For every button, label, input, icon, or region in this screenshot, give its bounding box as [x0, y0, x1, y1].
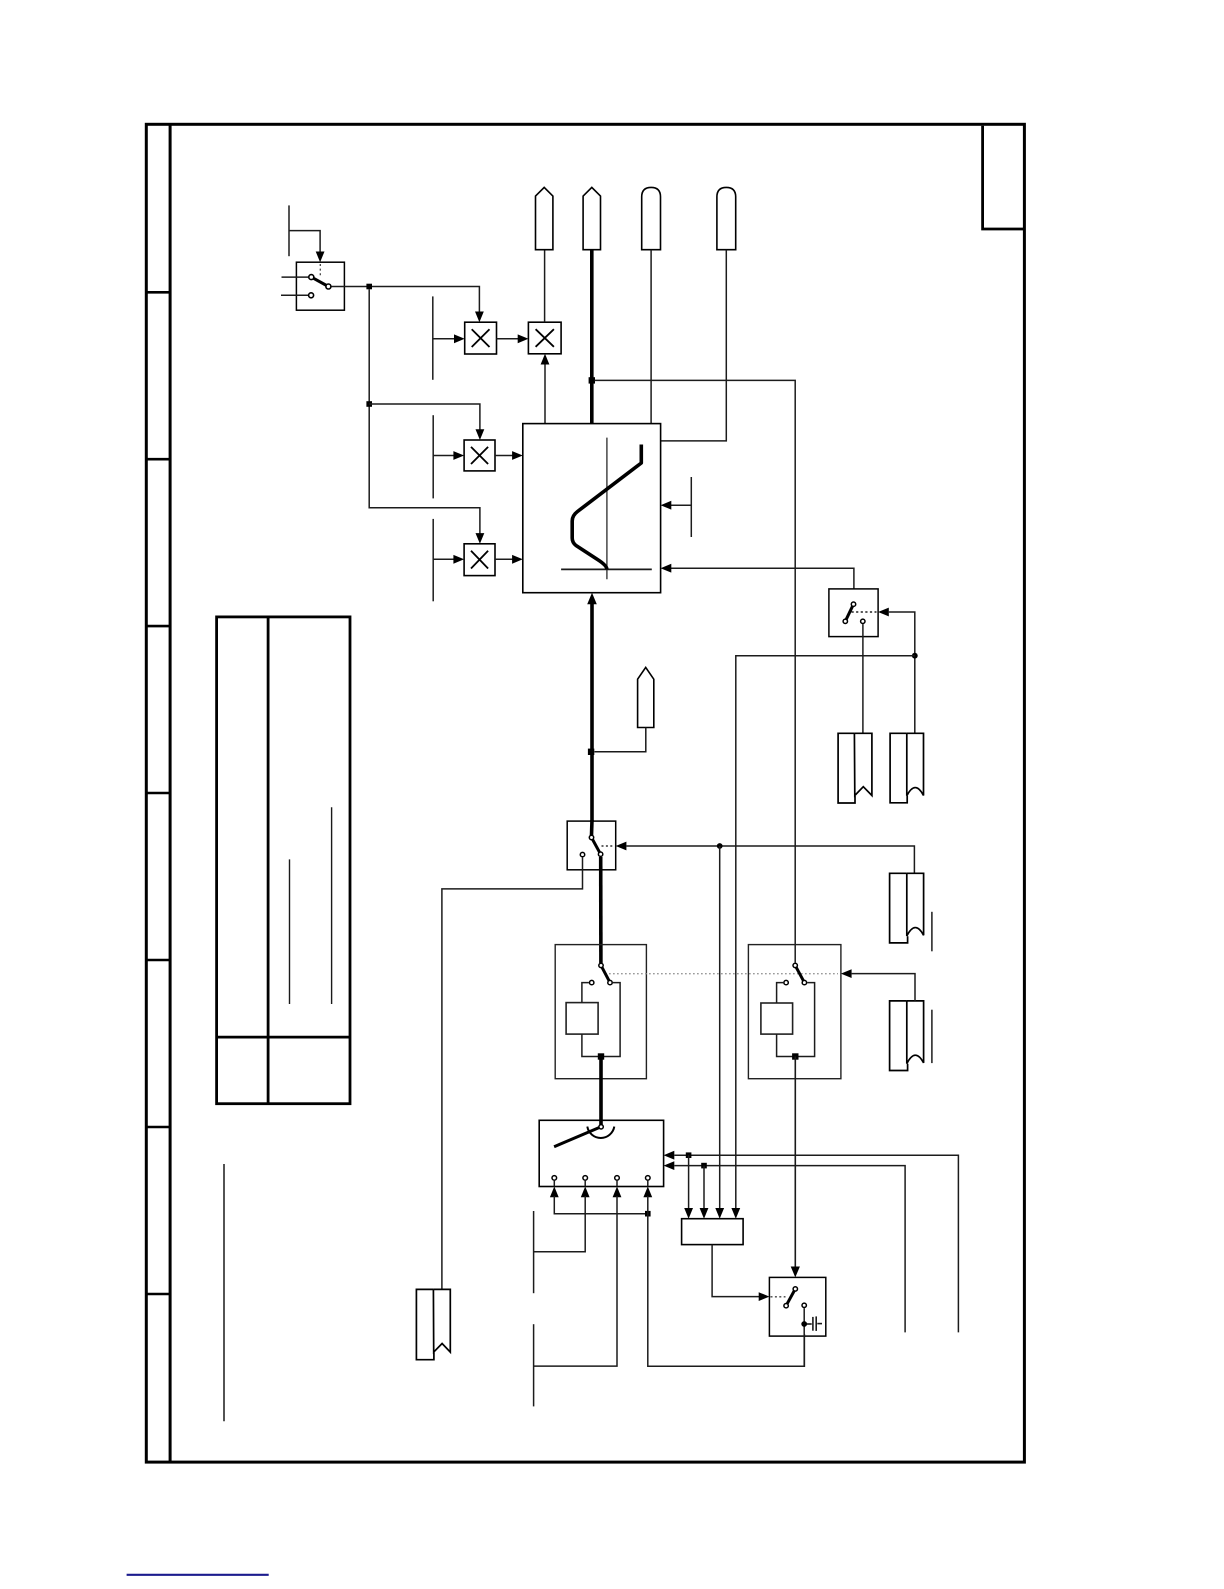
input port stub P2	[432, 296, 434, 379]
S1 input wire b	[281, 294, 308, 296]
wire J3 to latch L2 (long vertical)	[595, 380, 796, 962]
multiplier M1 box	[465, 322, 497, 354]
multiplier M2 box	[528, 322, 561, 354]
L2 contact circles	[784, 963, 807, 985]
border zone tick 1	[146, 291, 170, 294]
off-page flag F5 (pentagon mid)	[638, 667, 654, 727]
junction dot J1	[366, 284, 372, 290]
L1 memory square	[566, 1003, 598, 1035]
input port stub P1	[289, 205, 320, 256]
wire P5 arrow into U1 right	[670, 504, 691, 506]
wire M2 up to flag F1	[544, 250, 546, 323]
bold wire F2 down into U1	[590, 250, 594, 424]
off-page flag F1 (pentagon)	[536, 187, 553, 249]
footer link rule (blue)	[127, 1574, 269, 1576]
wire J5 horizontal to priority riser	[736, 656, 915, 1209]
off-page flag C (torn, curl)	[890, 733, 923, 803]
SW2 dotted actuator + arrow from flag C riser	[852, 611, 877, 613]
off-page flag E (torn, chevron)	[416, 1289, 450, 1359]
wire S1 output to multiplier M1	[332, 287, 480, 313]
S1 moving contact arm	[311, 277, 328, 286]
wire L2 down arrow into SW4	[794, 1057, 796, 1268]
wire arrow into M4 top	[476, 533, 485, 544]
wire flag B riser to L2	[852, 974, 915, 1001]
S1 dotted actuator line	[319, 264, 321, 277]
switch SW3 box	[567, 821, 616, 870]
SEL contact circles	[552, 1176, 650, 1181]
wire stem1 to junction J7	[554, 1196, 648, 1214]
wire arrow into M1 top	[475, 312, 484, 323]
off-page flag B (torn, curl)	[890, 1001, 924, 1071]
junction dot J4 on bold wire	[588, 749, 594, 755]
wire stem3 to port stub	[534, 1196, 617, 1366]
off-page flag D (torn, chevron)	[838, 733, 872, 803]
M3 X glyph	[471, 447, 488, 464]
wire J1 down to J2 and row3	[369, 289, 480, 534]
wire SW4 right contact down	[803, 1308, 805, 1366]
L1 moving contact arm	[601, 965, 610, 982]
multiplier M3 box	[464, 440, 495, 471]
wire stem4 / SW4 return loop	[648, 1196, 805, 1366]
arrow into SEL right edge (upper)	[664, 1151, 675, 1160]
U1 vertical axis	[606, 438, 608, 580]
wire M1 to M2 arrow	[497, 338, 519, 340]
wire P2 arrow into M1	[433, 338, 455, 340]
switch SW4 box	[769, 1277, 825, 1336]
input port stub P3	[432, 415, 434, 498]
wire from stub riser R1	[674, 1155, 958, 1332]
SW3 contact circles	[580, 835, 603, 857]
SEL wiper arc	[587, 1127, 614, 1138]
SEL pivot circle	[599, 1125, 603, 1129]
off-page flag F4 (round top)	[717, 187, 736, 249]
junction dot J2	[366, 401, 372, 407]
wire SW2 feed arrow into U1 right	[670, 568, 854, 589]
title block rule a	[289, 859, 291, 1004]
M1 X glyph	[472, 329, 490, 347]
wire J9 down to priority box	[703, 1166, 705, 1209]
wire J6 down to priority box	[719, 846, 721, 1209]
arrow into L2 right edge	[841, 969, 852, 978]
arrow into SW3 right edge	[616, 842, 627, 851]
wire M3 arrow into U1	[495, 455, 513, 457]
wire flagA riser to SW3	[626, 846, 914, 873]
input port stub P4	[432, 519, 434, 601]
wire P4 arrow into M4	[433, 558, 454, 560]
priority logic box PB	[682, 1219, 744, 1245]
wire F4 into U1 right side	[661, 250, 727, 441]
wire arrow into M3 top	[476, 429, 485, 440]
wire from stub riser R2	[674, 1166, 905, 1333]
border zone tick 5	[146, 959, 170, 962]
wire riser to SW2 (from junction J5)	[889, 612, 915, 733]
SEL moving arm	[554, 1127, 601, 1147]
latch unit L2 enclosure	[748, 945, 841, 1079]
junction dot J3 on bold wire	[589, 377, 595, 383]
L2 memory square	[761, 1003, 793, 1034]
M2 X glyph	[536, 329, 554, 347]
SW4 contact circles	[784, 1287, 807, 1308]
multiplier M4 box	[464, 544, 495, 576]
border zone tick 7	[146, 1293, 170, 1296]
title block table	[217, 617, 350, 1104]
wire P3 arrow into M3	[433, 455, 454, 457]
junction dot J6	[717, 843, 723, 849]
off-page flag F3 (round top)	[642, 187, 661, 249]
junction dot J7	[645, 1211, 651, 1217]
SW4 dotted actuator	[771, 1296, 786, 1298]
junction dot J8	[686, 1152, 692, 1158]
wire J2 to M3 top	[369, 404, 480, 430]
input port stub P5	[690, 477, 692, 537]
L1 output junction dot	[598, 1053, 604, 1059]
L2 moving contact arm	[795, 965, 804, 982]
wire M4 arrow into U1	[495, 558, 513, 560]
junction dot J9	[701, 1163, 707, 1169]
port stub Pb	[533, 1324, 535, 1406]
capacitor symbol	[807, 1316, 822, 1331]
S1 input wire a	[282, 276, 309, 278]
L1 loop wiring	[582, 983, 589, 1003]
border zone tick 6	[146, 1126, 170, 1129]
wire stem2 to port stub	[534, 1196, 586, 1252]
bold bus arrow up into U1 bottom	[590, 604, 594, 823]
U1 transfer curve	[572, 445, 641, 570]
switch S1 box	[296, 262, 344, 310]
selector box SEL	[539, 1120, 663, 1186]
port stub beside flag B	[931, 1010, 933, 1063]
junction dot J5	[912, 653, 918, 659]
down arrows into PB top	[684, 1208, 693, 1219]
up arrows into SEL contacts	[550, 1187, 559, 1198]
wire J8 down to priority box	[688, 1155, 690, 1209]
latch unit L1 enclosure	[555, 945, 646, 1079]
SW3 dotted actuator	[602, 845, 615, 847]
wire F5 elbow to bold bus	[595, 728, 646, 752]
border zone tick 4	[146, 792, 170, 795]
switch SW2 box	[829, 589, 878, 637]
title block rule b	[331, 807, 333, 1004]
off-page flag F2 (pentagon)	[583, 187, 600, 249]
capacitor junction dot	[801, 1321, 807, 1327]
wire SW3 left contact to flag E	[442, 857, 583, 1289]
SEL contact stems	[554, 1181, 648, 1187]
bold bus into SW3 (from U1 bottom)	[590, 820, 594, 835]
U1 horizontal axis	[561, 568, 652, 570]
SW4 moving contact arm	[786, 1289, 795, 1306]
arrow into SEL right edge (lower)	[664, 1161, 675, 1170]
wire PB output arrow into SW4	[712, 1245, 759, 1297]
border zone tick 2	[146, 458, 170, 461]
port stub Pa	[533, 1211, 535, 1293]
M4 X glyph	[471, 551, 488, 569]
S1 contact circles	[309, 275, 331, 298]
off-page flag A (torn, curl)	[890, 873, 924, 943]
SW2 contact circles	[843, 602, 865, 624]
L1 contact circles	[590, 963, 613, 985]
border zone tick 3	[146, 625, 170, 628]
SW3 moving contact arm	[592, 838, 601, 855]
limiter block U1	[523, 424, 661, 593]
drawing border frame	[146, 124, 1024, 1462]
wire arrow into S1	[316, 252, 325, 263]
bottom-left fold line	[223, 1164, 225, 1421]
wire SW2 bottom contact to flag D	[862, 624, 864, 733]
wire F3 down into U1	[650, 250, 652, 424]
bold bus SW3 to latch L1	[599, 857, 603, 963]
wire U1 up arrow into M2 bottom	[544, 365, 546, 424]
L1/L2 dotted gang line	[605, 973, 838, 975]
L2 loop wiring	[777, 983, 784, 1003]
port stub beside flag A	[931, 912, 933, 952]
top-right title notch	[983, 126, 1025, 229]
SW2 moving contact arm	[845, 604, 853, 621]
bold bus L1 to selector SEL	[599, 1057, 603, 1125]
L2 output junction dot	[792, 1053, 798, 1059]
